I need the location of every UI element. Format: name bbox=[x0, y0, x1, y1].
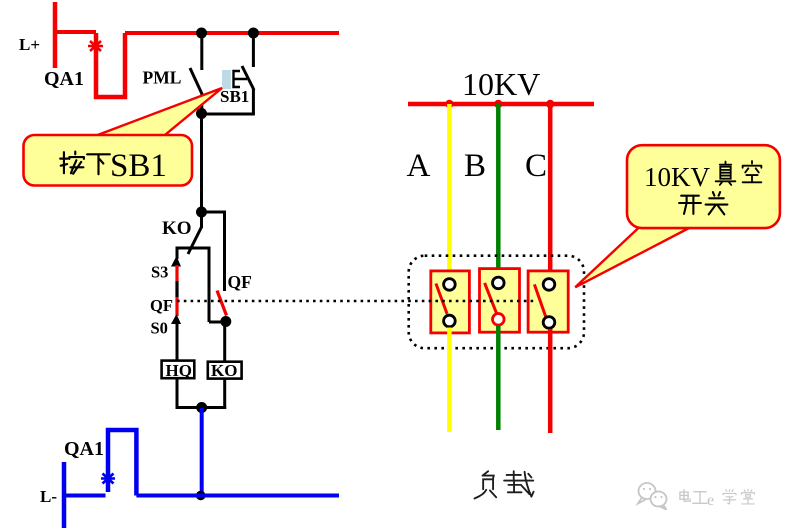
arrowhead S3 bbox=[171, 256, 181, 267]
svg-text:S0: S0 bbox=[151, 319, 168, 338]
travel segment S3 red bbox=[175, 265, 178, 281]
watermark text 电工e学堂 bbox=[680, 489, 755, 504]
coil KO box bbox=[208, 362, 242, 379]
junction node on L- bus bbox=[196, 491, 206, 501]
svg-text:PML: PML bbox=[143, 68, 182, 88]
pole B box bbox=[480, 269, 520, 333]
junction node above KO bbox=[196, 207, 207, 218]
L- terminal bar bbox=[62, 462, 67, 528]
breaker aux contact QF blade red bbox=[217, 291, 227, 316]
wire horizontal below KO bbox=[176, 247, 211, 250]
pole A upper contact bbox=[444, 279, 456, 291]
svg-text:SB1: SB1 bbox=[220, 87, 249, 106]
contact PML blade bbox=[190, 68, 202, 94]
coil HQ box bbox=[162, 361, 195, 379]
callout text line2 开关 bbox=[679, 196, 701, 214]
callout bubble 10KV真空开关 bbox=[627, 145, 780, 228]
phase B lower conductor green bbox=[496, 326, 501, 430]
svg-text:QA1: QA1 bbox=[64, 438, 104, 460]
vacuum switch enclosure dashed bbox=[409, 256, 584, 349]
label 负载 load bbox=[474, 471, 533, 498]
junction node QF bottom bbox=[220, 316, 231, 327]
wire middle vertical bbox=[208, 248, 211, 322]
wire L- bus right segment bbox=[136, 494, 339, 498]
QA1 top open-contact cross marker bbox=[88, 41, 103, 51]
QA1 bottom open-contact cross marker bbox=[101, 474, 115, 484]
wire PML lower terminal bbox=[200, 93, 203, 114]
svg-text:C: C bbox=[525, 148, 547, 184]
phase C lower conductor red bbox=[548, 329, 553, 433]
svg-text:10KV: 10KV bbox=[462, 66, 540, 102]
svg-text:B: B bbox=[464, 148, 486, 184]
10KV bus bar bbox=[408, 102, 594, 107]
tap node phase C bbox=[546, 100, 554, 108]
wire bypass to QF upper bbox=[202, 212, 225, 291]
phase A upper conductor yellow bbox=[447, 104, 452, 279]
callout tail (10KV真空开关) bbox=[575, 227, 692, 288]
left branch lower wire bbox=[176, 323, 179, 361]
svg-text:L-: L- bbox=[40, 487, 57, 506]
pole A lower contact bbox=[444, 315, 456, 327]
L+ terminal bar bbox=[53, 2, 58, 68]
wire SB1 bottom horizontal bbox=[200, 113, 255, 116]
arrowhead S0 bbox=[171, 314, 181, 324]
svg-text:QF: QF bbox=[228, 272, 252, 292]
callout bubble 按下SB1 bbox=[24, 135, 193, 186]
contact KO stub bbox=[200, 212, 203, 228]
svg-text:L+: L+ bbox=[19, 35, 40, 54]
wire below HQ bbox=[176, 378, 179, 409]
wire SB1 lower vertical bbox=[252, 89, 255, 114]
wire below KO coil bbox=[223, 379, 226, 409]
junction node bottom bbox=[196, 402, 207, 413]
pole B blade red bbox=[485, 283, 497, 314]
wire bottom joining horizontal bbox=[176, 406, 227, 409]
svg-text:SB1: SB1 bbox=[110, 148, 167, 184]
callout text 按下SB1 bbox=[60, 152, 110, 175]
wire L+ bus left segment bbox=[55, 30, 96, 34]
pole B upper contact bbox=[493, 277, 505, 289]
pole C lower contact bbox=[543, 317, 555, 329]
wire L- bus left segment bbox=[64, 494, 106, 498]
phase A lower conductor yellow bbox=[447, 328, 452, 433]
disconnect switch QA1 top (open) bbox=[96, 33, 125, 97]
contact PML upper terminal wire bbox=[200, 33, 203, 70]
left branch upper wire bbox=[176, 248, 179, 259]
disconnect switch QA1 bottom (open) bbox=[108, 430, 136, 496]
callout tail (按下SB1) bbox=[87, 88, 222, 139]
watermark logo bubbles bbox=[638, 483, 667, 510]
pushbutton SB1 upper terminal wire bbox=[252, 33, 255, 67]
wire to L- bus blue bbox=[200, 408, 204, 496]
pole C blade red bbox=[534, 284, 546, 317]
pole C box bbox=[528, 271, 568, 332]
pole A box bbox=[431, 271, 470, 333]
pole A blade red bbox=[436, 284, 447, 314]
wire L+ bus right segment bbox=[125, 31, 339, 35]
wire QF bottom horizontal bbox=[209, 321, 226, 324]
travel segment QF red bbox=[175, 297, 178, 316]
pushbutton SB1 blade bbox=[242, 66, 254, 90]
phase C upper conductor red bbox=[548, 104, 553, 279]
pole B lower contact red bbox=[493, 314, 505, 326]
wire main vertical SB1 to KO bbox=[200, 113, 203, 212]
svg-text:KO: KO bbox=[162, 218, 192, 239]
pole C upper contact bbox=[543, 279, 555, 291]
tap node phase B bbox=[494, 100, 502, 108]
phase B upper conductor green bbox=[496, 104, 501, 277]
svg-text:10KV: 10KV bbox=[644, 162, 710, 192]
pushbutton SB1 actuator highlight bbox=[222, 70, 231, 89]
junction node bus/SB1 bbox=[248, 28, 259, 39]
travel segment mid black bbox=[175, 281, 178, 297]
svg-text:QF: QF bbox=[150, 296, 173, 315]
mechanical linkage dotted line bbox=[177, 300, 537, 303]
contact KO blade bbox=[188, 227, 202, 254]
svg-text:e: e bbox=[707, 492, 714, 509]
tap node phase A bbox=[445, 100, 453, 108]
junction node bus/PML bbox=[196, 28, 207, 39]
svg-text:A: A bbox=[407, 148, 431, 184]
svg-text:HQ: HQ bbox=[166, 361, 192, 380]
wire QF to KO coil bbox=[223, 322, 226, 362]
junction node below PML bbox=[196, 108, 207, 119]
svg-text:KO: KO bbox=[211, 361, 237, 380]
svg-text:QA1: QA1 bbox=[44, 68, 84, 90]
pushbutton SB1 actuator bracket bbox=[234, 71, 248, 87]
svg-text:S3: S3 bbox=[151, 263, 168, 282]
